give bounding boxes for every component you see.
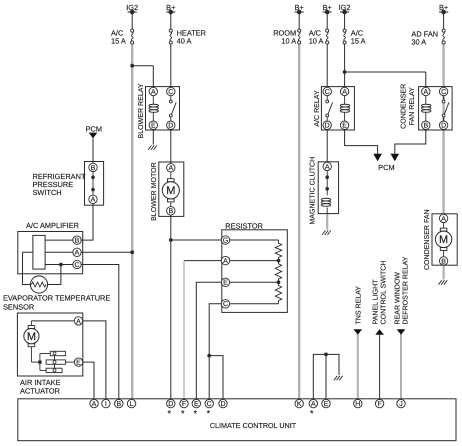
node TNS relay arrow xyxy=(354,329,363,335)
svg-text:*: * xyxy=(181,409,185,419)
svg-text:E: E xyxy=(223,280,228,287)
svg-text:CONTROL SWITCH: CONTROL SWITCH xyxy=(381,261,388,325)
svg-text:CONDENSER: CONDENSER xyxy=(401,84,408,129)
wire blower motor pin B to climate control unit pin D xyxy=(170,215,172,399)
blower motor pin A xyxy=(167,164,175,173)
node B+ terminal (room) xyxy=(295,3,304,29)
svg-text:D: D xyxy=(441,123,446,130)
svg-text:C: C xyxy=(168,89,173,96)
air intake actuator pin E xyxy=(74,358,82,367)
climate control unit pin B xyxy=(115,399,123,408)
svg-text:A: A xyxy=(151,89,156,96)
node B+ terminal (AD FAN) xyxy=(439,3,448,29)
svg-text:A: A xyxy=(223,258,228,265)
svg-text:PCM: PCM xyxy=(378,163,394,172)
label AD FAN 30 A fuse value xyxy=(411,29,438,46)
label EVAPORATOR TEMPERATURE SENSOR xyxy=(3,294,110,312)
label AIR INTAKE ACTUATOR xyxy=(20,378,61,396)
junction blower motor line to resistor pin G xyxy=(169,238,221,242)
climate control unit pin A xyxy=(90,399,98,408)
condenser fan relay pin C xyxy=(439,87,447,96)
node B+ terminal (heater) xyxy=(166,3,175,29)
wire resistor pin A to climate control unit pin F xyxy=(184,261,221,400)
wire AD FAN feed bus through condenser fan relay to condenser fan xyxy=(442,44,444,214)
amplifier internal block xyxy=(33,235,45,269)
svg-text:C: C xyxy=(207,401,212,408)
label A/C 15 A fuse value (right) xyxy=(351,29,366,46)
fuse A/C 15 A (left) xyxy=(131,29,134,44)
wire actuator pin A to climate control unit pin I xyxy=(83,321,106,399)
fuse A/C 10 A xyxy=(326,29,329,44)
node IG2 terminal (left) xyxy=(126,3,138,29)
wire blower relay pin E to ground xyxy=(152,129,154,144)
svg-text:B: B xyxy=(91,165,96,172)
climate control unit pin H xyxy=(354,399,362,408)
wire actuator pin A to motor xyxy=(31,320,74,322)
svg-text:M: M xyxy=(166,185,175,197)
svg-text:F: F xyxy=(377,401,381,408)
resistor element R3 xyxy=(275,282,281,304)
resistor element R2 xyxy=(275,261,281,283)
svg-text:A: A xyxy=(76,318,81,325)
svg-text:A/C AMPLIFIER: A/C AMPLIFIER xyxy=(26,221,79,230)
node B+ terminal (A/C 10A) xyxy=(323,3,332,29)
ground magnetic clutch xyxy=(322,230,331,235)
svg-text:ACTUATOR: ACTUATOR xyxy=(20,387,60,396)
svg-text:E: E xyxy=(324,401,329,408)
svg-text:RESISTOR: RESISTOR xyxy=(225,221,263,230)
wire IG2 feed bus (left, thick) from fuse to pin L xyxy=(131,44,133,399)
svg-text:15 A: 15 A xyxy=(111,37,126,46)
unit CLIMATE CONTROL UNIT box xyxy=(18,399,456,441)
svg-text:B: B xyxy=(75,238,80,245)
wire amplifier internal to pin B xyxy=(45,239,73,241)
wire resistor pin C to climate control unit pin C xyxy=(209,304,221,399)
wire amplifier pin C to climate control unit pin B xyxy=(81,265,119,400)
magnetic clutch pin A xyxy=(323,162,331,171)
svg-text:D: D xyxy=(168,401,173,408)
svg-text:D: D xyxy=(325,123,330,130)
wire magnetic clutch ground lead xyxy=(326,213,328,229)
svg-text:CONDENSER FAN: CONDENSER FAN xyxy=(424,209,431,270)
junction pin E tap on ground network xyxy=(324,353,328,400)
svg-text:A: A xyxy=(423,89,428,96)
wire evaporator temperature sensor to amplifier pin C wire xyxy=(48,265,61,285)
climate control unit pin F xyxy=(180,399,188,408)
svg-text:E: E xyxy=(194,401,199,408)
label A/C 10 A fuse value xyxy=(309,29,324,46)
climate control unit pin D xyxy=(219,399,227,408)
blower motor pin B xyxy=(167,207,175,216)
svg-text:15 A: 15 A xyxy=(351,37,366,46)
svg-text:M: M xyxy=(439,234,448,246)
blower relay pin C xyxy=(167,87,175,96)
ground blower relay xyxy=(148,145,157,150)
svg-text:TNS RELAY: TNS RELAY xyxy=(355,286,362,325)
node rear window defroster relay arrow xyxy=(397,329,406,335)
condenser fan relay coil A-B xyxy=(421,96,431,121)
fuse A/C 15 A (right) xyxy=(343,29,346,44)
blower motor armature xyxy=(162,172,179,207)
condenser fan relay switch C-D xyxy=(442,96,449,121)
refrigerant pressure switch pin B xyxy=(89,163,97,172)
relay CONDENSER FAN RELAY box xyxy=(419,87,453,130)
fuse HEATER 40 A xyxy=(169,29,172,44)
blower relay pin D xyxy=(167,121,175,130)
refrigerant pressure switch contacts xyxy=(91,172,95,196)
wire heater fuse to blower relay pin C xyxy=(170,44,172,91)
svg-text:C: C xyxy=(441,89,446,96)
svg-text:10 A: 10 A xyxy=(281,37,296,46)
svg-text:BLOWER RELAY: BLOWER RELAY xyxy=(138,83,145,138)
node PCM arrow (from A/C relay) xyxy=(373,154,382,161)
climate control unit pin L xyxy=(127,399,135,408)
node panel light control switch arrow xyxy=(375,329,384,335)
svg-text:B: B xyxy=(116,401,121,408)
condenser fan relay pin B xyxy=(422,121,430,130)
svg-text:C: C xyxy=(74,262,79,269)
svg-text:E: E xyxy=(151,123,156,130)
wire condenser fan relay pin B to PCM arrow xyxy=(395,129,426,153)
amplifier pin B xyxy=(73,236,81,245)
junction IG2 bus to A/C amplifier pin A xyxy=(81,250,134,254)
svg-text:A: A xyxy=(91,197,96,204)
wire refrigerant pressure switch pin A to A/C amplifier pin B xyxy=(81,204,93,241)
motor BLOWER MOTOR box xyxy=(159,162,184,216)
svg-text:C: C xyxy=(223,301,228,308)
resistor internal tap E xyxy=(230,280,281,284)
wire amplifier pin A to evaporator temperature sensor xyxy=(23,252,31,284)
ground condenser fan xyxy=(439,280,448,285)
climate control unit pin D xyxy=(167,399,175,408)
svg-text:E: E xyxy=(342,123,347,130)
svg-text:B: B xyxy=(168,208,173,215)
wire blower relay pin D to blower motor xyxy=(170,129,172,167)
air intake actuator position contacts xyxy=(31,351,74,372)
wire TNS relay line to pin H xyxy=(357,334,359,399)
svg-text:M: M xyxy=(27,331,36,343)
wire amplifier internal to pin C with sensor tap junction xyxy=(45,263,73,267)
condenser fan relay pin A xyxy=(422,87,430,96)
resistor internal wiring G to chain xyxy=(230,239,279,241)
resistor internal tap A xyxy=(230,259,281,263)
resistor block box xyxy=(222,230,287,313)
motor CONDENSER FAN box xyxy=(432,214,457,265)
resistor element R1 xyxy=(275,240,281,261)
svg-text:A: A xyxy=(75,250,80,257)
climate control unit pin I xyxy=(102,399,110,408)
svg-text:*: * xyxy=(168,409,172,419)
wire resistor pin E to climate control unit pin E xyxy=(196,282,221,399)
svg-text:*: * xyxy=(207,409,211,419)
wire climate unit pin A to ground network xyxy=(313,354,339,399)
condenser fan relay pin D xyxy=(439,121,447,130)
wire rear window defroster relay line to pin J xyxy=(400,334,402,399)
resistor internal wiring C xyxy=(230,303,279,305)
condenser fan armature xyxy=(435,223,451,257)
label REAR WINDOW DEFROSTER RELAY xyxy=(394,256,409,324)
climate control unit pin E xyxy=(192,399,200,408)
label HEATER 40 A fuse value xyxy=(177,29,206,46)
resistor pin G xyxy=(221,236,229,245)
svg-text:BLOWER MOTOR: BLOWER MOTOR xyxy=(151,162,158,221)
svg-text:A: A xyxy=(342,89,347,96)
svg-text:E: E xyxy=(76,360,81,367)
wire ROOM fuse feed bus to pin K xyxy=(298,44,300,399)
svg-text:40 A: 40 A xyxy=(177,37,192,46)
label asterisk marks xyxy=(168,409,314,419)
svg-text:C: C xyxy=(325,89,330,96)
svg-text:D: D xyxy=(220,401,225,408)
resistor pin C xyxy=(221,300,229,309)
svg-text:A: A xyxy=(441,216,446,223)
wire A/C 10A fuse to A/C relay pin C xyxy=(326,44,328,91)
condenser fan pin A xyxy=(439,214,447,223)
blower relay switch C-D xyxy=(169,96,176,121)
condenser fan pin B xyxy=(439,257,447,266)
resistor pin A xyxy=(221,256,229,265)
wire actuator pin E to climate control unit pin A xyxy=(83,362,94,399)
A/C relay coil A-E xyxy=(340,96,350,121)
A/C relay pin A xyxy=(340,87,348,96)
svg-text:A: A xyxy=(325,164,330,171)
wire panel light control switch to pin F xyxy=(379,335,381,399)
svg-text:A: A xyxy=(168,165,173,172)
A/C relay switch C-D xyxy=(326,96,333,121)
svg-text:L: L xyxy=(130,401,134,408)
amplifier pin A xyxy=(73,248,81,257)
svg-text:A: A xyxy=(92,401,97,408)
refrigerant pressure switch pin A xyxy=(89,195,97,204)
svg-text:SENSOR: SENSOR xyxy=(3,302,34,311)
svg-text:D: D xyxy=(168,123,173,130)
svg-text:PANEL LIGHT: PANEL LIGHT xyxy=(373,279,380,325)
label ROOM 10 A fuse value xyxy=(273,29,296,46)
svg-text:*: * xyxy=(310,409,314,419)
svg-text:B: B xyxy=(423,123,428,130)
svg-text:G: G xyxy=(223,237,228,244)
relay A/C RELAY box xyxy=(321,87,354,130)
fuse AD FAN 30 A xyxy=(442,29,445,44)
fuse ROOM 10 A xyxy=(298,29,301,44)
svg-text:10 A: 10 A xyxy=(309,37,324,46)
climate control unit pin K xyxy=(295,399,303,408)
node IG2 terminal (right) xyxy=(339,3,351,29)
switch REFRIGERANT PRESSURE SWITCH box xyxy=(85,162,104,206)
svg-text:B: B xyxy=(441,258,446,265)
svg-text:I: I xyxy=(105,401,107,408)
node PCM arrow (left) xyxy=(89,133,98,139)
magnetic clutch contacts and coil xyxy=(321,171,331,214)
amplifier pin C xyxy=(73,260,81,269)
label A/C 15 A fuse value xyxy=(111,29,126,46)
svg-text:F: F xyxy=(182,401,186,408)
amplifier A/C AMPLIFIER box xyxy=(18,232,83,274)
label PANEL LIGHT CONTROL SWITCH xyxy=(373,261,388,325)
svg-text:REAR WINDOW: REAR WINDOW xyxy=(394,272,401,325)
blower relay pin E xyxy=(149,121,157,130)
junction resistor C wire to climate control unit pin D (right) xyxy=(207,354,223,400)
svg-text:A/C RELAY: A/C RELAY xyxy=(313,90,321,127)
svg-text:A: A xyxy=(311,401,316,408)
climate control unit pin F xyxy=(375,399,383,408)
node PCM arrow (from condenser fan relay) xyxy=(391,154,400,161)
A/C relay pin C xyxy=(323,87,331,96)
wire PCM to refrigerant pressure switch pin B xyxy=(92,138,94,167)
climate control unit pin E xyxy=(322,399,330,408)
svg-text:H: H xyxy=(355,401,360,408)
A/C relay pin D xyxy=(323,121,331,130)
svg-text:MAGNETIC CLUTCH: MAGNETIC CLUTCH xyxy=(309,157,316,225)
wire condenser fan ground lead xyxy=(443,265,445,279)
wire amplifier pin A internal xyxy=(23,251,73,253)
resistor pin E xyxy=(221,278,229,287)
svg-text:K: K xyxy=(297,401,302,408)
climate control unit pin A xyxy=(309,399,317,408)
svg-text:EVAPORATOR TEMPERATURE: EVAPORATOR TEMPERATURE xyxy=(3,294,110,303)
sensor EVAPORATOR TEMPERATURE SENSOR thermistor xyxy=(30,276,47,293)
svg-text:SWITCH: SWITCH xyxy=(33,188,62,197)
svg-text:J: J xyxy=(399,401,403,408)
climate control unit pin C xyxy=(205,399,213,408)
relay BLOWER RELAY box xyxy=(146,87,180,130)
junction IG2 bus to blower relay coil xyxy=(130,64,153,92)
climate control unit pin J xyxy=(397,399,405,408)
ground climate control unit A/E xyxy=(334,376,343,381)
air intake actuator pin A xyxy=(74,317,82,326)
wire A/C relay pin E to PCM arrow xyxy=(345,129,378,153)
air intake actuator motor xyxy=(24,321,39,362)
svg-text:CLIMATE CONTROL UNIT: CLIMATE CONTROL UNIT xyxy=(210,421,297,430)
blower relay pin A xyxy=(149,87,157,96)
svg-text:PCM: PCM xyxy=(86,125,102,134)
junction IG2 right fuse to condenser fan relay coil xyxy=(343,70,426,91)
A/C relay pin E xyxy=(340,121,348,130)
svg-text:DEFROSTER RELAY: DEFROSTER RELAY xyxy=(403,256,410,324)
wire IG2 fuse to A/C relay pin A xyxy=(344,44,346,91)
svg-text:*: * xyxy=(193,409,197,419)
svg-text:FAN RELAY: FAN RELAY xyxy=(409,87,416,126)
wire A/C relay pin D to magnetic clutch xyxy=(326,129,328,166)
clutch MAGNETIC CLUTCH box xyxy=(318,162,338,214)
actuator AIR INTAKE ACTUATOR box xyxy=(17,313,82,376)
svg-text:30 A: 30 A xyxy=(411,38,426,47)
label REFRIGERANT PRESSURE SWITCH xyxy=(33,172,86,197)
blower relay coil A-E xyxy=(149,96,159,121)
label CONDENSER FAN RELAY xyxy=(401,84,416,129)
